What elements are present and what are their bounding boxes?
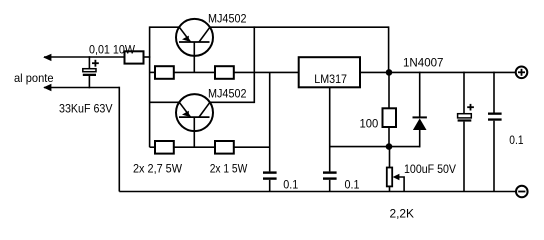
capacitor C4 100uF 50V (electrolytic) xyxy=(458,72,474,192)
svg-text:2,2K: 2,2K xyxy=(390,206,415,220)
svg-text:100uF 50V: 100uF 50V xyxy=(404,162,456,176)
wire top collector to output xyxy=(210,26,389,28)
capacitor C2 0.1 xyxy=(263,171,277,191)
wire R5 to input node xyxy=(234,146,270,148)
svg-text:2x 2,7 5W: 2x 2,7 5W xyxy=(133,161,183,175)
wire negative input down to ground rail xyxy=(118,87,120,192)
terminal + output xyxy=(516,67,528,79)
svg-text:0.1: 0.1 xyxy=(345,178,360,192)
svg-text:100: 100 xyxy=(360,116,379,130)
value label 0.1 (C2) xyxy=(283,178,298,192)
svg-text:0.1: 0.1 xyxy=(283,178,298,192)
wire Q2 emitter to bus xyxy=(150,101,180,103)
wire LM317 ADJ pin down xyxy=(329,87,331,171)
resistor R3 (1 ohm) xyxy=(215,66,234,79)
wire R3 to LM317 input xyxy=(234,71,299,73)
wire R2 to R3 (through Q1 base) xyxy=(174,71,215,73)
wire LM317 input vertical tie xyxy=(269,72,271,171)
wire input bottom (from bridge) xyxy=(44,87,119,89)
wire input bus (left vertical) xyxy=(149,26,151,147)
potentiometer P1 2,2K (trimmer) xyxy=(387,147,404,192)
wire ADJ node horizontal xyxy=(330,146,420,148)
value label 0.1 (C3) xyxy=(345,178,360,192)
junction output node xyxy=(386,69,393,76)
value label 100uF 50V xyxy=(404,162,456,176)
op-amp U1 LM317 regulator xyxy=(299,57,360,87)
terminal - output xyxy=(516,186,528,198)
part label MJ4502 (upper) xyxy=(208,11,247,25)
svg-text:1N4007: 1N4007 xyxy=(403,56,444,70)
junction ADJ node xyxy=(386,143,393,150)
capacitor C3 0.1 xyxy=(323,171,337,191)
value label 2x 1 5W xyxy=(210,161,248,175)
value label 0,01 10W xyxy=(89,43,136,57)
wire collector drop to output node xyxy=(388,26,390,72)
svg-text:0.1: 0.1 xyxy=(509,133,523,147)
svg-text:MJ4502: MJ4502 xyxy=(208,11,247,25)
transistor Q2 MJ4502 xyxy=(176,94,213,147)
svg-text:0,01 10W: 0,01 10W xyxy=(89,43,136,57)
arrow to bridge (top) xyxy=(43,54,51,61)
wire Q2 collector xyxy=(210,101,255,103)
value label 2,2K xyxy=(390,206,415,220)
diode D1 1N4007 xyxy=(413,72,427,148)
svg-text:LM317: LM317 xyxy=(314,72,347,86)
capacitor C5 0.1 (output) xyxy=(488,72,502,192)
part label 1N4007 xyxy=(403,56,444,70)
arrow to bridge (bottom) xyxy=(43,84,51,91)
capacitor C1 33KuF 63V (electrolytic) xyxy=(83,56,99,88)
node label al ponte xyxy=(14,71,54,85)
resistor R4 (2,7 ohm) xyxy=(155,141,174,154)
resistor R2 (2,7 ohm) xyxy=(155,66,174,79)
wire R4 to R5 (through Q2 base) xyxy=(174,146,215,148)
value label 2x 2,7 5W xyxy=(133,161,183,175)
part label LM317 xyxy=(314,72,347,86)
wire LM317 output rail xyxy=(360,71,516,73)
transistor Q1 MJ4502 xyxy=(176,19,213,73)
resistor R1 0,01 10W xyxy=(125,51,144,63)
svg-text:33KuF 63V: 33KuF 63V xyxy=(59,101,113,115)
value label 0.1 (C5) xyxy=(509,133,523,147)
wire collector tie vertical xyxy=(253,26,255,103)
resistor R6 100 xyxy=(383,72,397,146)
value label 100 xyxy=(360,116,379,130)
svg-text:MJ4502: MJ4502 xyxy=(208,87,247,101)
wire top emitter feed xyxy=(150,26,180,28)
wire ground rail (bottom) xyxy=(119,191,516,193)
wire bus to R4 xyxy=(150,146,155,148)
value label 33KuF 63V xyxy=(59,101,113,115)
resistor R5 (1 ohm) xyxy=(215,141,234,154)
part label MJ4502 (lower) xyxy=(208,87,247,101)
wire R1 to input bus xyxy=(144,56,151,58)
wire input top (from bridge) xyxy=(44,56,125,58)
svg-text:2x 1 5W: 2x 1 5W xyxy=(210,161,248,175)
wire bus to R2 xyxy=(150,71,155,73)
svg-text:al ponte: al ponte xyxy=(14,71,54,85)
